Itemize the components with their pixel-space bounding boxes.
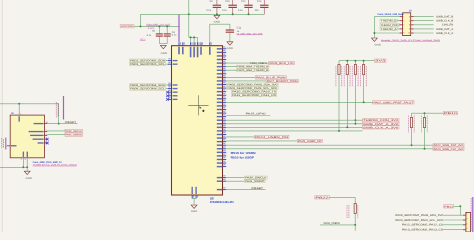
wire VTref pin drop	[18, 104, 20, 115]
wire J5 row1 left	[374, 16, 399, 18]
connector J5 left pin stubs	[400, 16, 403, 18]
svg-text:3V3: 3V3	[375, 60, 386, 63]
svg-text:PA30_SWCLK: PA30_SWCLK	[245, 177, 267, 180]
svg-text:R510 for USBP: R510 for USBP	[231, 155, 254, 159]
connector J5 body	[403, 13, 411, 36]
svg-text:10: 10	[408, 32, 410, 35]
global label PA07_MOSFET_PWM	[266, 79, 298, 82]
wire net PA15_GPIO	[226, 115, 270, 117]
junction VDDCORE corner	[140, 25, 142, 27]
hierarchical label PA31_SWDIO	[244, 180, 265, 183]
wire J2 bottom gnd stub 1	[22, 158, 24, 168]
wire net PA03_VREFA	[226, 62, 269, 64]
svg-text:6: 6	[409, 24, 410, 27]
wire RESET row	[47, 123, 77, 125]
svg-text:PA30_SWCLK: PA30_SWCLK	[66, 130, 83, 133]
wire SWDIO row	[47, 134, 65, 136]
junction THERM_CON / R16	[354, 119, 356, 121]
MCU U5 top pin numbers	[180, 42, 181, 44]
wire bottom gnd drop	[193, 199, 195, 205]
wire J6 PA08_SERCOM2_PA08_SDA_3V0	[443, 214, 463, 216]
junction C6 top	[166, 25, 168, 27]
svg-text:3: 3	[403, 19, 404, 22]
wire gnd drop 1	[190, 37, 192, 42]
connector J2 left pin name	[11, 145, 17, 146]
svg-text:PA07_MOSFET_PWM: PA07_MOSFET_PWM	[267, 80, 298, 83]
svg-text:ATSAMD21G18A-MU: ATSAMD21G18A-MU	[210, 200, 234, 204]
wire VDDCORE label stub	[134, 25, 141, 27]
MCU U5 left pin names	[173, 60, 178, 61]
junction rail/C10	[232, 13, 234, 15]
svg-text:4: 4	[46, 133, 47, 136]
capacitor C6 bottom lead	[166, 37, 168, 44]
svg-text:0.1u: 0.1u	[206, 9, 211, 12]
hierarchical label PA04_ANA_THERM_A	[237, 65, 269, 68]
power net text vertical (magenta)	[55, 102, 58, 104]
wire PA03_VREFA row	[320, 224, 355, 226]
resistor R13 bottom lead	[354, 214, 356, 225]
connector J2 left pin stub	[7, 145, 10, 147]
svg-text:Conn_ARM_JTAG_SWD_10: Conn_ARM_JTAG_SWD_10	[33, 161, 63, 164]
svg-text:PB22: PB22	[315, 196, 330, 199]
wire gnd drop 2	[193, 37, 195, 42]
resistor R18 bottom lead	[411, 128, 413, 146]
svg-text:7: 7	[403, 28, 404, 31]
resistor R18 value texts (rotated)	[407, 116, 410, 118]
junction pair top	[424, 112, 426, 114]
wire net SWB_DAT_B	[226, 144, 433, 146]
MCU U5 bottom pin numbers	[193, 195, 194, 197]
wire THERM_CON stub	[398, 24, 400, 26]
svg-text:C12: C12	[241, 0, 246, 3]
svg-text:0.1u: 0.1u	[222, 9, 227, 12]
svg-text:/RESET: /RESET	[251, 187, 263, 190]
wire J6 PA13_SERCOM2_PA13_CD	[443, 229, 463, 231]
svg-text:10u: 10u	[254, 9, 259, 12]
svg-text:GND: GND	[191, 210, 198, 213]
resistor R15 top lead	[346, 61, 348, 65]
capacitor C10 bottom lead	[232, 8, 234, 14]
svg-text:Conn_02x05_Odd_Even: Conn_02x05_Odd_Even	[377, 13, 404, 16]
svg-text:PA09_SERCOM2_PA09_SCL_SCK: PA09_SERCOM2_PA09_SCL_SCK	[395, 219, 443, 222]
ground symbol under C8/C6	[160, 45, 166, 48]
capacitor C8 top lead	[158, 26, 160, 33]
capacitor C10	[229, 5, 237, 6]
svg-text:SWB_CLK_B: SWB_CLK_B	[436, 20, 453, 23]
global label PA30_SWCLK (SWD)	[65, 129, 83, 132]
capacitor C9	[213, 5, 221, 6]
wire net THERM_ROW4	[226, 130, 362, 132]
wire net PA30_SWCLK	[226, 177, 244, 179]
MCU U5 right pin stubs	[223, 48, 227, 50]
resistor R13 value texts (rotated)	[346, 205, 349, 207]
resistor R18	[410, 118, 412, 128]
svg-text:GND: GND	[26, 177, 33, 180]
wire pull-up pair top	[412, 112, 444, 114]
hierarchical label PA30_SWCLK	[244, 176, 267, 179]
svg-text:PB02_SERCOM5_SDA: PB02_SERCOM5_SDA	[130, 60, 165, 63]
capacitor C9 bottom lead	[216, 8, 218, 14]
svg-text:R510 for USBN: R510 for USBN	[231, 151, 256, 155]
svg-text:9: 9	[403, 32, 404, 35]
wire net /RESET	[226, 189, 265, 191]
svg-text:VDDCORE: VDDCORE	[121, 25, 134, 28]
resistor R14 top lead	[338, 61, 340, 65]
wire J5 right SWB_CLK_B	[414, 20, 434, 22]
svg-text:PA31_SWDIO: PA31_SWDIO	[66, 134, 82, 137]
svg-text:THERM_B: THERM_B	[381, 20, 397, 23]
hierarchical label PB02_SERCOM5_SDA	[129, 59, 165, 62]
wire stub label PB09_SERCOM4_SCL	[166, 88, 168, 90]
junction R14 bottom	[338, 130, 340, 132]
junction PB11 corner	[459, 205, 461, 207]
wire gnd drop J2	[26, 167, 28, 171]
resistor R16 bottom lead	[354, 75, 356, 124]
svg-text:0.1u: 0.1u	[172, 34, 177, 37]
resistor R17	[363, 65, 365, 75]
capacitor C8	[156, 33, 163, 34]
resistor R19	[423, 118, 425, 128]
highlighted VDDCORE wire (violet)	[178, 15, 180, 42]
junction VTref pin	[18, 103, 20, 105]
svg-text:PA03_BCK_100: PA03_BCK_100	[270, 62, 295, 65]
hierarchical label PB09_SERCOM4_SCL	[129, 87, 165, 90]
wire J6 PA12_SERCOM2_PA12_CS	[443, 224, 463, 226]
wire gnd drop 3	[197, 37, 199, 42]
wire 3V3 drop to RESET row	[58, 104, 60, 124]
svg-text:SWB_CLK_A_3V0: SWB_CLK_A_3V0	[363, 126, 399, 129]
svg-text:THERM_CON_3V0: THERM_CON_3V0	[363, 119, 399, 122]
resistor R16 top lead	[354, 61, 356, 65]
wire net PA31_SWDIO	[226, 180, 244, 182]
global label PA24_USBN_DN	[254, 135, 289, 138]
svg-text:PA23_SWB_CLK_3V0: PA23_SWB_CLK_3V0	[434, 148, 464, 151]
capacitor C12	[244, 5, 252, 6]
resistor R15	[346, 65, 348, 75]
capacitor C9 top lead	[216, 0, 218, 5]
MCU U5 body (ATSAMD21G18A)	[172, 46, 223, 195]
wire VDDIO up	[209, 24, 211, 42]
highlighted wire right edge (violet)	[472, 197, 474, 232]
svg-text:PA24_USBN_DN: PA24_USBN_DN	[255, 136, 288, 139]
wire SWCLK row	[47, 130, 65, 132]
wire THERM_A stub	[397, 28, 399, 30]
hierarchical label PB03_SERCOM5_SCL	[129, 63, 165, 66]
wire PB11 drop	[459, 206, 461, 215]
connector J2 right pin names	[34, 123, 44, 124]
hierarchical label PA09_SERCOM0_PA09_SCL_SCK	[227, 87, 278, 90]
connector J5 right pin stubs	[411, 16, 414, 18]
global label PB10	[443, 112, 457, 115]
global label PB22	[315, 196, 330, 199]
wire net SWB_DAT_A_3V0	[226, 123, 362, 125]
ground symbol J5	[372, 38, 378, 41]
svg-text:PA25_USBP_DP: PA25_USBP_DP	[298, 140, 322, 143]
wire joining C8/C6 bottoms	[159, 43, 167, 45]
svg-text:GND: GND	[161, 52, 168, 55]
capacitor C13 bottom lead	[263, 8, 265, 14]
wire THERM_B stub	[397, 20, 399, 22]
resistor R19 value texts (rotated)	[420, 116, 423, 118]
svg-text:PB08_SERCOM4_SDA: PB08_SERCOM4_SDA	[130, 84, 165, 87]
highlighted 3V3 wire (violet)	[63, 96, 65, 120]
junction gnd stub 1	[22, 166, 24, 168]
MCU U5 top pin stubs	[178, 42, 180, 46]
MCU U5 anchor crosshair	[188, 104, 208, 106]
svg-text:C13: C13	[257, 0, 262, 3]
svg-text:GND: GND	[214, 21, 221, 24]
wire J5 right SWB_DAT_A	[414, 28, 434, 30]
global label PA22_SWB_DAT_3V0	[433, 144, 464, 147]
junction gnd stub 2	[26, 166, 28, 168]
connector J2 bottom pin names	[23, 152, 24, 158]
hierarchical label THERM_A	[380, 27, 397, 30]
svg-text:SWB_CLK_A: SWB_CLK_A	[436, 32, 453, 35]
power text vertical left edge (magenta)	[0, 138, 3, 140]
ground symbol J2	[24, 171, 30, 174]
svg-text:THERM_A: THERM_A	[381, 28, 397, 31]
hierarchical label PA08_SERCOM0_PA08_SDA_3V0	[227, 83, 278, 86]
ground symbol under MCU	[191, 205, 197, 208]
global label 3V3	[375, 59, 387, 62]
resistor R16	[354, 65, 356, 75]
wire net PA04_ANA_THERM_A	[226, 66, 269, 68]
capacitor C11 bottom lead	[229, 33, 231, 42]
MCU U5 left pin stubs	[168, 60, 172, 62]
resistor R15 value texts (rotated)	[343, 66, 346, 68]
connector J2 right pin stubs	[44, 123, 47, 125]
junction J5 row5	[373, 32, 375, 34]
wire J5 row5 left	[374, 32, 399, 34]
wire J5 right SWB_DAT_B	[414, 16, 434, 18]
wire net SWB_CLK_A_3V0	[226, 126, 362, 128]
capacitor C6 top lead	[166, 26, 168, 33]
wire VDDCORE horizontal	[141, 25, 180, 27]
svg-text:PA02_USBC_PRST_FAULT: PA02_USBC_PRST_FAULT	[374, 101, 414, 104]
resistor R14 bottom lead	[338, 75, 340, 131]
svg-text:THERM_CON: THERM_CON	[381, 24, 399, 27]
resistor R19 bottom lead	[424, 128, 426, 149]
sheet edge (left faint)	[1, 0, 3, 232]
junction rail/R16	[354, 60, 356, 62]
wire riser from top	[188, 0, 190, 37]
global label SWB_DAT_A_3V0	[363, 122, 400, 125]
capacitor C12 bottom lead	[248, 8, 250, 14]
MCU U5 bottom pin names	[192, 187, 193, 194]
MCU U5 bottom pin stubs	[191, 195, 193, 199]
svg-text:GND: GND	[227, 47, 234, 50]
wire PB22 to R13	[329, 196, 355, 198]
wire net PA25_USBP_DP	[226, 140, 297, 142]
hierarchical label PA10_SERCOM0_PA10_TX	[231, 90, 276, 93]
junction FAULT row / R17	[363, 101, 365, 103]
wire stub label PB03_SERCOM5_SCL	[166, 63, 168, 65]
resistor R14	[338, 65, 340, 75]
junction rail/C9	[216, 13, 218, 15]
MCU U5 right pin numbers	[223, 46, 225, 47]
resistor R17 bottom lead	[363, 75, 365, 103]
global label PB11	[444, 205, 454, 208]
svg-text:PA05_ANA_THERM_B: PA05_ANA_THERM_B	[237, 69, 268, 72]
wire net PA24_USBN_DN	[226, 136, 254, 138]
junction rail/R15	[346, 60, 348, 62]
resistor R13 top lead	[354, 197, 356, 203]
global label PA25_USBP_DP	[297, 139, 322, 142]
connector J2 body (SWD)	[10, 115, 44, 158]
junction gnd drop 1	[190, 36, 192, 38]
svg-text:4: 4	[466, 227, 467, 230]
junction RESET row	[58, 123, 60, 125]
junction VREFA/R13	[354, 224, 356, 226]
wire gnd from sheet edge	[0, 166, 27, 168]
capacitor C13	[260, 5, 268, 6]
wire net PA06_BLUE_PWM	[226, 76, 255, 78]
wire J5 right SWB_CLK_A	[414, 32, 434, 34]
capacitor C10 top lead	[232, 0, 234, 5]
svg-text:3: 3	[466, 222, 467, 225]
svg-text:0.1u: 0.1u	[147, 34, 152, 37]
wire joining bottom pins	[192, 198, 196, 200]
junction rail/riser	[188, 13, 190, 15]
svg-text:CHG_EN: CHG_EN	[442, 24, 454, 27]
ground symbol under C11	[227, 42, 233, 45]
hierarchical label THERM_CON	[380, 23, 399, 26]
svg-text:1: 1	[466, 213, 467, 216]
highlighted wire left edge (violet)	[5, 138, 7, 150]
global label PA23_SWB_CLK_3V0	[433, 147, 464, 150]
resistor R16 value texts (rotated)	[351, 66, 354, 68]
capacitor C11	[226, 30, 234, 31]
svg-text:PA15_GPIO: PA15_GPIO	[246, 112, 266, 115]
svg-text:PB11: PB11	[444, 205, 454, 208]
junction rail/C12	[248, 13, 250, 15]
wire VTref horizontal from sheet edge	[0, 103, 59, 105]
svg-text:SWB_DAT_A: SWB_DAT_A	[436, 28, 453, 31]
wire net SWB_CLK_B	[226, 148, 433, 150]
MCU U5 no-connect crosses	[166, 91, 169, 94]
svg-text:/RESET: /RESET	[65, 121, 77, 124]
wire J6 PA09_SERCOM2_PA09_SCL_SCK	[443, 219, 463, 221]
wire stub label PB02_SERCOM5_SDA	[166, 60, 168, 62]
svg-text:C10: C10	[225, 0, 230, 3]
junction gnd drop 2	[193, 36, 195, 38]
wire net THERM_CON_3V0	[226, 119, 362, 121]
wire net PA05_ANA_THERM_B	[226, 69, 269, 71]
svg-text:2: 2	[466, 218, 467, 221]
resistor R17 value texts (rotated)	[359, 66, 362, 68]
junction R16 bottom	[354, 123, 356, 125]
global label SWB_CLK_A_3V0	[363, 126, 400, 129]
svg-text:PA03_VREFA: PA03_VREFA	[250, 62, 267, 65]
svg-text:PA12_SERCOM2_PA12_CS: PA12_SERCOM2_PA12_CS	[402, 224, 444, 227]
connector J2 no-connect crosses	[46, 138, 49, 141]
svg-text:PB09_SERCOM4_SCL: PB09_SERCOM4_SCL	[130, 88, 166, 91]
svg-text:2: 2	[46, 129, 47, 132]
wire net PA07_MOSFET_PWM	[226, 80, 266, 82]
wire 3V3 rail for pull-ups	[339, 60, 374, 62]
capacitor C12 top lead	[248, 0, 250, 5]
global label PA06_BLUE_PWM	[255, 76, 286, 79]
hierarchical label THERM_B	[380, 19, 397, 22]
wire stub label PB08_SERCOM4_SDA	[166, 84, 168, 86]
hierarchical label PA05_ANA_THERM_B	[237, 69, 269, 72]
svg-text:PA10_SERCOM0_PA10_TX: PA10_SERCOM0_PA10_TX	[232, 91, 276, 94]
global label PA03_BCK_100	[269, 61, 294, 64]
MCU U5 top pin names	[178, 47, 180, 55]
svg-text:PB03_SERCOM5_SCL: PB03_SERCOM5_SCL	[130, 63, 166, 66]
wire GND rail under capacitors	[141, 13, 265, 15]
svg-text:2: 2	[409, 15, 410, 18]
resistor R14 value texts (rotated)	[335, 66, 338, 68]
junction R15 bottom	[346, 126, 348, 128]
MCU U5 left pin numbers	[168, 58, 170, 59]
capacitor C13 top lead	[263, 0, 265, 5]
resistor R19 top lead	[424, 113, 426, 117]
capacitor C6	[164, 33, 171, 34]
svg-text:3: 3	[21, 158, 22, 161]
global label PA31_SWDIO (SWD)	[65, 133, 83, 136]
global label VDDCORE	[120, 25, 134, 28]
svg-text:8: 8	[409, 28, 410, 31]
svg-text:PA13_SERCOM2_PA13_CD: PA13_SERCOM2_PA13_CD	[402, 229, 443, 232]
svg-text:0.1u: 0.1u	[238, 9, 243, 12]
wire PB11 right	[454, 205, 461, 207]
junction rail/R17	[363, 60, 365, 62]
svg-text:PA31_SWDIO: PA31_SWDIO	[245, 180, 264, 183]
wire gnd header horizontal	[189, 36, 198, 38]
svg-text:PA08_SERCOM2_PA08_SDA_3V0: PA08_SERCOM2_PA08_SDA_3V0	[395, 214, 444, 217]
wire J2 bottom gnd stub 2	[26, 158, 28, 168]
svg-text:PA08_SERCOM0_PA08_SDA_3V0: PA08_SERCOM0_PA08_SDA_3V0	[228, 84, 279, 87]
junction R19/SWB_CLK row	[424, 148, 426, 150]
svg-text:SWB_DAT_B: SWB_DAT_B	[436, 16, 453, 19]
resistor R15 bottom lead	[346, 75, 348, 128]
wire J5 left vertical to GND	[373, 17, 375, 38]
svg-text:PA22_SWB_DAT_3V0: PA22_SWB_DAT_3V0	[434, 144, 464, 147]
global label PA02_USBC_PRST_FAULT	[373, 101, 414, 104]
wire VREFA stub down	[354, 225, 356, 231]
wire C11 top lead	[229, 24, 231, 29]
connector J2 top pin name VTref	[19, 116, 20, 122]
junction C8 top	[158, 25, 160, 27]
wire rail drop left	[140, 14, 142, 26]
resistor R17 top lead	[363, 61, 365, 65]
connector J6 left pin stubs	[463, 214, 466, 216]
MCU U5 right pin names	[217, 48, 222, 49]
svg-text:5: 5	[403, 24, 404, 27]
ground symbol at rail	[214, 15, 220, 18]
svg-text:GND: GND	[374, 44, 381, 47]
svg-text:4: 4	[409, 19, 410, 22]
svg-text:PB10: PB10	[444, 112, 458, 115]
connector J6 body (right edge)	[466, 212, 471, 232]
wire VDDIO right	[210, 23, 230, 25]
capacitor C8 bottom lead	[158, 37, 160, 44]
hierarchical label PA11_SERCOM0_PA11_RX	[231, 94, 276, 97]
svg-text:1: 1	[20, 112, 21, 115]
junction R18/SWB_DAT row	[411, 144, 413, 146]
wire J5 right CHG_EN	[414, 24, 434, 26]
svg-text:5: 5	[25, 158, 26, 161]
resistor R18 top lead	[411, 113, 413, 117]
svg-text:PA11_SERCOM0_PA11_RX: PA11_SERCOM0_PA11_RX	[232, 94, 276, 97]
global label THERM_CON_3V0	[363, 119, 400, 122]
svg-text:PA03_VREFA: PA03_VREFA	[324, 222, 340, 225]
power net text vertical right edge (magenta)	[471, 198, 472, 200]
resistor R13	[354, 204, 356, 214]
wire net PA02_USBC_PRST_FAULT	[226, 101, 373, 103]
hierarchical label PB08_SERCOM4_SDA	[129, 83, 165, 86]
